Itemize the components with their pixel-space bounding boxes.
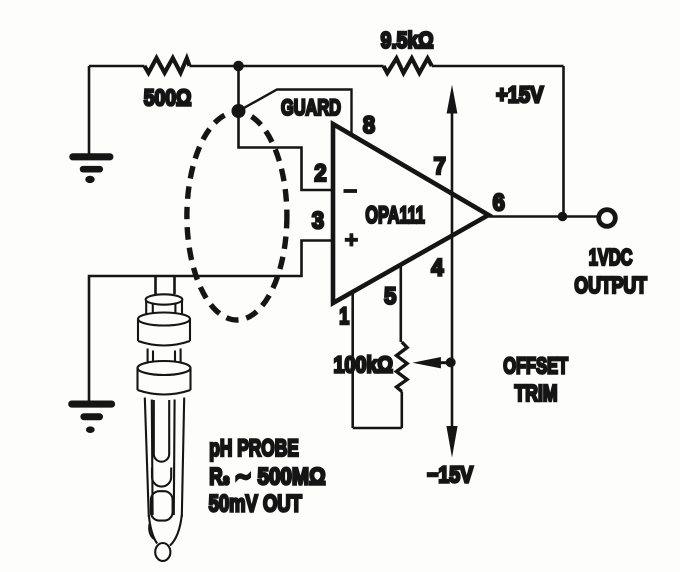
svg-text:GUARD: GUARD — [281, 95, 341, 120]
svg-text:1: 1 — [339, 303, 349, 330]
svg-text:5: 5 — [384, 283, 396, 310]
pot wiper arrow — [412, 357, 441, 368]
wire feedback vertical down to output node — [562, 66, 565, 217]
svg-text:OFFSET: OFFSET — [503, 353, 568, 379]
pH probe electrode body — [138, 294, 191, 561]
node output dot — [558, 212, 568, 222]
guard callout outline — [239, 90, 352, 135]
wire top middle — [190, 65, 384, 68]
svg-text:OPA111: OPA111 — [365, 202, 424, 229]
wire top-left horizontal — [89, 65, 145, 68]
+15V arrowhead up — [447, 85, 458, 114]
non-inverting input plus symbol — [345, 233, 358, 246]
svg-text:3: 3 — [312, 208, 324, 235]
svg-text:2: 2 — [314, 160, 326, 187]
wire pot bottom lead — [400, 392, 403, 429]
wire pin 1 vertical — [351, 290, 354, 428]
svg-text:8: 8 — [363, 112, 375, 139]
svg-text:TRIM: TRIM — [515, 380, 558, 406]
pH probe connection pins — [156, 276, 175, 294]
svg-text:R: R — [209, 464, 223, 491]
wire wiper to rail — [440, 361, 452, 364]
svg-text:9.5kΩ: 9.5kΩ — [381, 27, 434, 53]
wire output from apex — [489, 215, 597, 218]
wire left vertical to upper ground — [88, 66, 91, 154]
resistor 500 ohm zigzag — [145, 58, 190, 73]
guard ring dashed ellipse — [187, 112, 287, 320]
svg-text:100kΩ: 100kΩ — [334, 352, 394, 378]
node wiper dot on rail — [446, 357, 456, 367]
svg-text:pH PROBE: pH PROBE — [209, 435, 298, 462]
svg-text:6: 6 — [493, 190, 505, 217]
label Rs ~ 500M ohm — [209, 464, 325, 491]
svg-text:500Ω: 500Ω — [144, 85, 192, 111]
ground symbol lower — [68, 401, 115, 434]
svg-text:7: 7 — [434, 153, 446, 180]
ground symbol upper — [69, 153, 113, 183]
wire guard trace to pin 2 — [239, 111, 332, 190]
potentiometer R3 100k zigzag — [397, 342, 408, 392]
inverting input minus symbol — [344, 189, 358, 193]
svg-text:OUTPUT: OUTPUT — [574, 272, 647, 298]
svg-text:+15V: +15V — [496, 81, 544, 107]
svg-text:s: s — [223, 472, 230, 489]
wire pin 5 down to pot — [399, 263, 402, 342]
svg-text:50mV OUT: 50mV OUT — [209, 491, 302, 518]
node junction dot on top wire — [233, 61, 244, 72]
wire top right to feedback corner — [432, 65, 564, 68]
output terminal circle — [599, 210, 616, 227]
svg-text:1VDC: 1VDC — [589, 244, 633, 270]
wire bottom horizontal to pin1 — [353, 427, 402, 430]
svg-text:4: 4 — [431, 255, 444, 282]
wire junction down to guard node — [237, 66, 240, 111]
svg-text:∼ 500MΩ: ∼ 500MΩ — [235, 464, 326, 491]
supply rail vertical line — [451, 95, 454, 426]
svg-text:−15V: −15V — [427, 462, 473, 488]
-15V arrowhead down — [446, 426, 457, 458]
resistor R2 9.5k zigzag — [384, 58, 432, 73]
node guard dot — [232, 104, 246, 118]
wire pin 3 trace to probe — [89, 241, 332, 401]
op-amp U1 OPA111 triangle — [333, 124, 489, 303]
